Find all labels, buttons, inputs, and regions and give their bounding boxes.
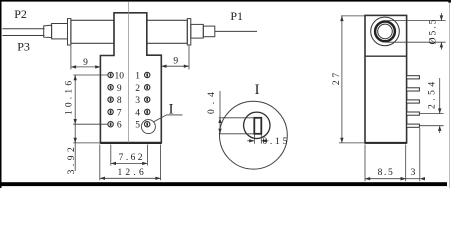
svg-text:7.62: 7.62 bbox=[119, 153, 145, 163]
svg-text:9: 9 bbox=[173, 57, 178, 67]
svg-text:10: 10 bbox=[114, 72, 124, 82]
svg-text:6: 6 bbox=[117, 121, 122, 131]
svg-text:10.16: 10.16 bbox=[64, 78, 74, 115]
svg-text:P3: P3 bbox=[17, 40, 30, 54]
svg-text:9: 9 bbox=[117, 84, 122, 94]
svg-text:I: I bbox=[169, 101, 174, 117]
svg-text:P2: P2 bbox=[14, 7, 27, 21]
svg-text:8: 8 bbox=[117, 96, 122, 106]
svg-text:4: 4 bbox=[135, 108, 140, 118]
svg-text:3: 3 bbox=[411, 168, 416, 178]
svg-text:27: 27 bbox=[332, 70, 342, 85]
svg-text:12.6: 12.6 bbox=[117, 168, 146, 178]
svg-text:P1: P1 bbox=[230, 9, 243, 23]
svg-text:7: 7 bbox=[117, 108, 122, 118]
svg-text:2: 2 bbox=[135, 84, 140, 94]
svg-text:1: 1 bbox=[135, 72, 140, 82]
svg-text:8.5: 8.5 bbox=[378, 168, 395, 178]
svg-text:3.92: 3.92 bbox=[67, 144, 77, 175]
svg-text:0.4: 0.4 bbox=[207, 87, 217, 114]
svg-text:9: 9 bbox=[83, 58, 88, 68]
svg-text:I: I bbox=[255, 82, 260, 98]
svg-text:3: 3 bbox=[135, 96, 140, 106]
svg-text:5: 5 bbox=[135, 121, 140, 131]
svg-text:2.54: 2.54 bbox=[428, 78, 438, 109]
svg-text:0.15: 0.15 bbox=[262, 137, 289, 147]
svg-text:Ø5.5: Ø5.5 bbox=[429, 18, 439, 45]
